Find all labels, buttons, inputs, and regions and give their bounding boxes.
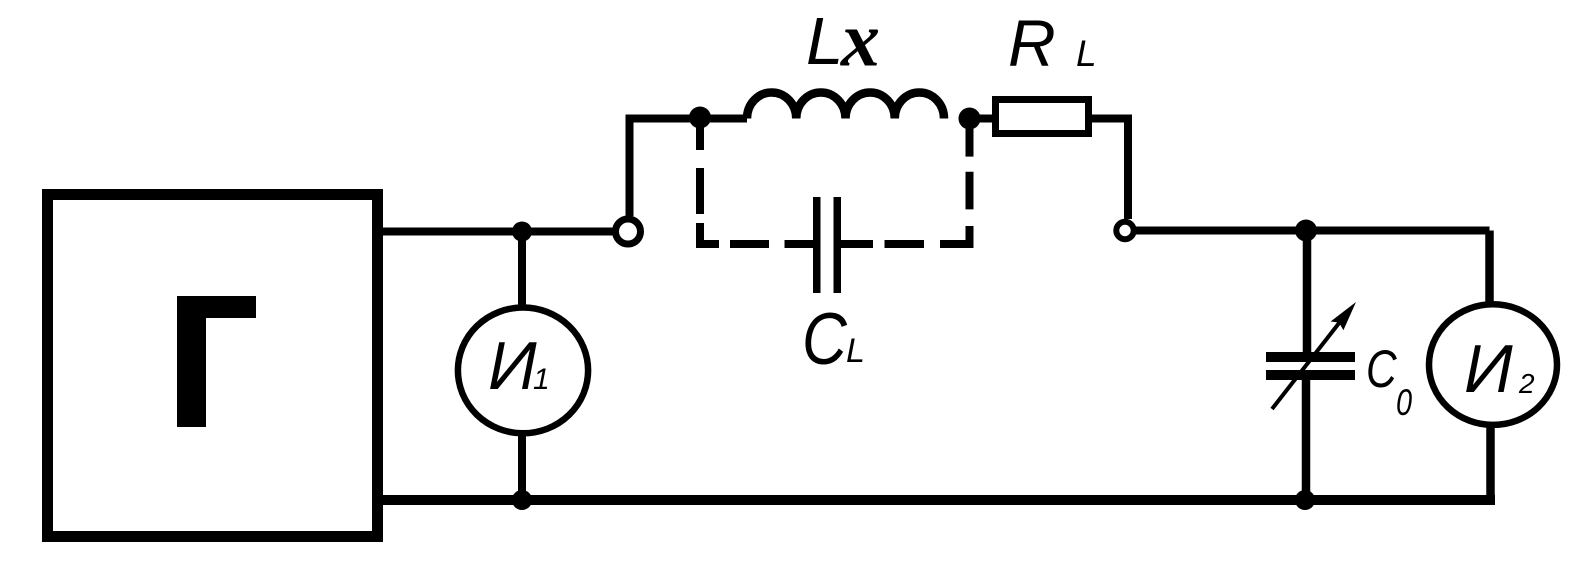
- wire: generator top output to terminal: [380, 228, 614, 236]
- svg-text:2: 2: [1518, 368, 1535, 399]
- svg-text:L: L: [846, 332, 865, 370]
- svg-text:C: C: [1366, 341, 1397, 400]
- svg-text:И: И: [1464, 331, 1513, 407]
- dashed wire: right vertical of CL branch: [940, 126, 970, 244]
- wire: right terminal to И2 top corner: [1135, 227, 1490, 235]
- junction dot: bottom of И1 branch: [512, 490, 532, 510]
- terminal (open circle) left of Lx network: [616, 219, 641, 244]
- dashed wire: bottom horizontal of CL branch: [730, 240, 924, 248]
- junction dot: bottom of C0 branch: [1295, 490, 1315, 510]
- wire: node B to resistor: [970, 115, 997, 123]
- svg-text:L: L: [806, 4, 843, 79]
- wire: resistor to right terminal: [1089, 119, 1128, 220]
- svg-text:x: x: [840, 0, 880, 83]
- junction dot: top of C0 branch: [1295, 220, 1317, 242]
- variable capacitor C0 bottom plate: [1266, 370, 1355, 380]
- wire: C0 branch vertical top: [1303, 231, 1312, 354]
- meter И2: [1429, 304, 1557, 425]
- junction dot: node A left of Lx: [689, 107, 711, 129]
- generator box G: [48, 195, 378, 537]
- junction dot: node B right of Lx: [959, 108, 981, 130]
- wire: C0 branch vertical bottom: [1302, 378, 1311, 500]
- svg-text:L: L: [1076, 33, 1097, 74]
- label C0: [1366, 341, 1397, 400]
- wire: И2 bottom vertical: [1486, 424, 1495, 500]
- meter И1: [458, 308, 588, 434]
- arrow of variable capacitor C0: [1272, 302, 1356, 409]
- wire: И2 top vertical: [1485, 231, 1494, 306]
- svg-text:C: C: [802, 299, 848, 380]
- junction dot: top of И1 branch: [512, 222, 532, 242]
- svg-text:И: И: [488, 328, 537, 404]
- dashed wire: left vertical of CL branch: [700, 118, 719, 245]
- generator letter Г: [177, 296, 256, 427]
- terminal (open circle) right of RL: [1116, 222, 1133, 239]
- svg-text:0: 0: [1396, 383, 1413, 424]
- label CL: [802, 299, 848, 380]
- wire: generator bottom to И2 bottom (bottom rail): [380, 495, 1495, 505]
- svg-text:1: 1: [533, 363, 550, 396]
- svg-text:R: R: [1008, 6, 1056, 80]
- inductor Lx: [747, 92, 944, 118]
- wire: up from left terminal and over to inductor: [630, 119, 748, 217]
- capacitor CL: [817, 197, 838, 293]
- wire: И1 branch vertical: [518, 232, 526, 501]
- resistor RL: [996, 100, 1089, 134]
- variable capacitor C0 top plate: [1266, 352, 1355, 362]
